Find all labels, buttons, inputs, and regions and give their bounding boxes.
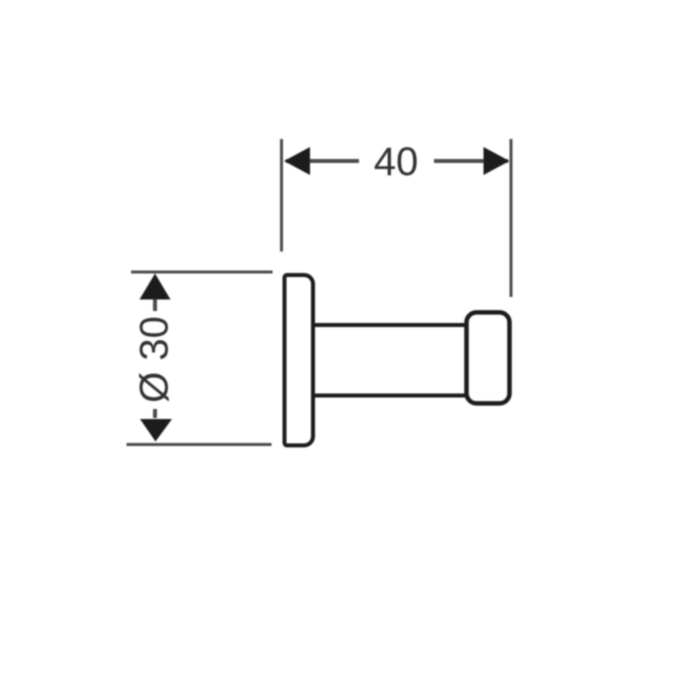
arrowhead up (dim 30): [140, 274, 171, 300]
svg-text:40: 40: [374, 140, 419, 184]
hook stem lower line: [313, 394, 467, 398]
svg-text:Ø 30: Ø 30: [133, 316, 177, 403]
dimension line 30 upper segment: [153, 298, 157, 311]
extension line bottom (dim 30): [127, 443, 272, 446]
extension line top (dim 30): [131, 271, 273, 274]
arrowhead down (dim 30): [140, 419, 172, 442]
hook wall plate: [285, 275, 314, 445]
arrowhead left (dim 40): [284, 147, 310, 175]
arrowhead right (dim 40): [484, 147, 510, 175]
dimension line 30 lower segment: [153, 409, 157, 418]
dimension line 40 left segment: [286, 159, 359, 163]
hook stem upper line: [313, 323, 467, 327]
hook knob: [467, 312, 510, 403]
extension line left (dim 40): [280, 139, 283, 252]
dimension line 40 right segment: [434, 159, 508, 163]
extension line right (dim 40): [510, 139, 513, 297]
